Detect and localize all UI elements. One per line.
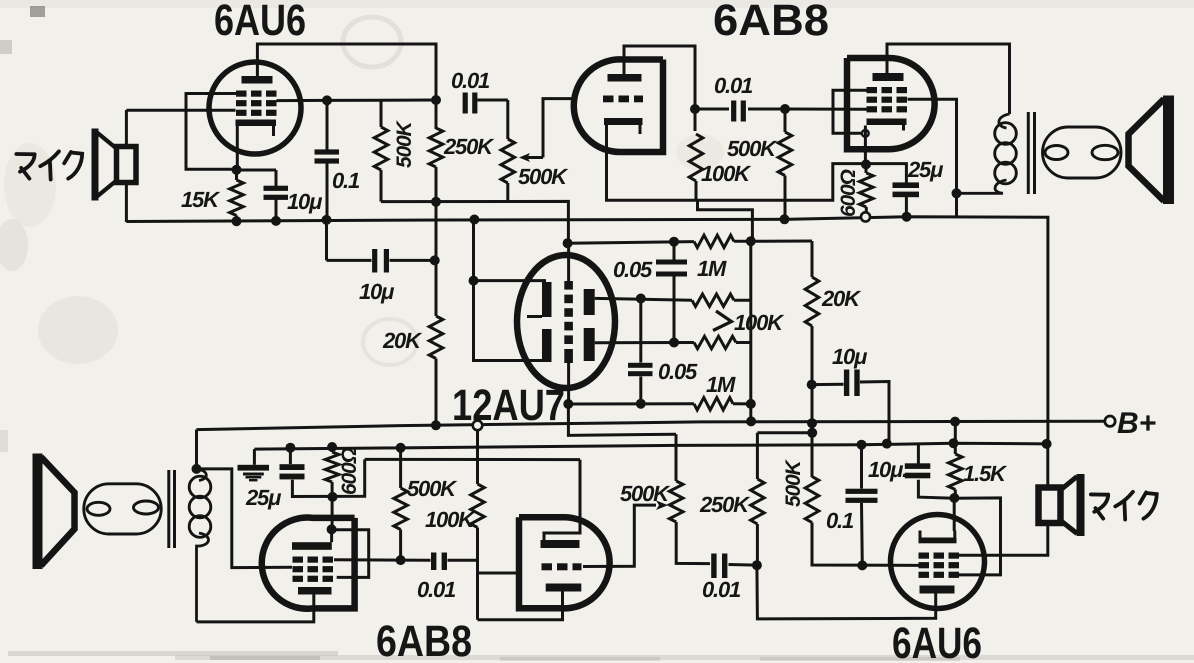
wire 436 vertical mid — [435, 202, 438, 316]
wire V1 plate to coupling node — [257, 44, 436, 129]
svg-text:500K: 500K — [407, 476, 458, 501]
tube 12AU7 V4 envelope — [517, 255, 615, 388]
node lineA x955 — [950, 417, 960, 427]
node lineA x436 — [431, 420, 441, 430]
tube 6AU6 V1 envelope — [209, 62, 301, 154]
svg-text:250K: 250K — [443, 134, 495, 159]
riser x751 — [749, 241, 752, 421]
wire row2 to riser — [734, 299, 751, 302]
resistor R10 100K-pot lower — [694, 336, 736, 348]
wire V4 left anchor — [474, 220, 547, 361]
potentiometer R4 500K (volume) — [501, 139, 515, 183]
wire row3 to riser — [736, 341, 751, 344]
resistor R6 500K — [784, 109, 787, 132]
wire mic top lead — [1046, 444, 1049, 488]
node V1 cathode junction — [232, 165, 242, 175]
capacitor C13 0.1 — [860, 445, 863, 489]
tube 6AB8 V2 triode envelope — [574, 59, 663, 152]
wire V3 plate to transformer — [887, 44, 1010, 114]
pot R4 wiper arrow — [527, 156, 543, 159]
node (435,260) — [430, 255, 440, 265]
wire V6 grid to pot wiper — [583, 505, 656, 566]
wire 100K to V6 cathode — [478, 593, 563, 620]
transformer T1 primary — [999, 114, 1010, 128]
capacitor C10 25u — [289, 448, 292, 464]
wire V7 plate line — [757, 565, 936, 619]
svg-text:0.1: 0.1 — [826, 508, 854, 533]
capacitor C7 0.05 — [673, 242, 676, 260]
capacitor C4 0.01 (coupling) — [463, 93, 468, 114]
V2 cathode line to V3 network — [607, 152, 907, 200]
tube V7 cathode — [919, 538, 957, 544]
svg-text:600Ω: 600Ω — [837, 170, 860, 217]
svg-text:20K: 20K — [382, 328, 423, 353]
svg-text:25μ: 25μ — [245, 485, 281, 510]
wire cathode to g3 — [954, 498, 1000, 575]
node grid line 0.1 — [857, 560, 867, 570]
speaker SP4 (マイク right) box — [1039, 488, 1061, 524]
wire SP1 top lead — [125, 110, 128, 148]
tube V1 plate — [242, 76, 273, 84]
crossover ring x477 — [473, 421, 483, 431]
wire wiper to V2 grid — [543, 99, 578, 158]
node riser lineA — [746, 416, 756, 426]
node lineB x812 — [807, 428, 817, 438]
node 25u/plate tap — [328, 492, 338, 502]
resistor R2 500K (plate load) — [380, 100, 383, 127]
tube V7 plate — [920, 586, 955, 594]
svg-text:15K: 15K — [181, 187, 221, 212]
pot R17 wiper arrow — [656, 500, 668, 510]
speaker SP2 horn — [1163, 96, 1174, 205]
tube V3 plate — [873, 73, 904, 81]
node riser row4 — [746, 399, 756, 409]
wire T2 to V5 grid — [197, 469, 293, 568]
tube V4 right plate lower — [584, 328, 595, 361]
capacitor C14 10u — [917, 444, 920, 464]
wire V5 row1 to node — [334, 558, 401, 561]
capacitor C9 10u — [812, 383, 844, 386]
node transformer return — [952, 188, 962, 198]
resistor R8 1M — [694, 235, 734, 247]
resistor R18 250K — [756, 433, 759, 479]
resistor R16 100K (bottom) — [476, 431, 479, 485]
capacitor C3 10u (feedback) — [325, 220, 328, 261]
pentode g3 bracket — [833, 90, 867, 133]
svg-text:0.1: 0.1 — [332, 168, 360, 193]
svg-text:20K: 20K — [821, 286, 862, 311]
node bus C1 — [271, 216, 281, 226]
wire V6 cathode lead — [561, 592, 564, 621]
capacitor C1 10u — [275, 170, 278, 186]
capacitor C8 0.05 — [639, 299, 642, 363]
node bus 12AU7-anchor — [469, 215, 479, 225]
resistor R19 500K (grid, bottom right) — [805, 477, 819, 523]
node grid2 bus (327,100) — [322, 95, 332, 105]
wire V3 cathode lead — [864, 126, 867, 166]
svg-text:10μ: 10μ — [287, 189, 322, 214]
svg-text:0.01: 0.01 — [714, 73, 753, 98]
resistor R20 1.5K — [954, 422, 957, 444]
node rail 0.1 — [857, 440, 867, 450]
node rail 1.5K — [949, 438, 959, 448]
node rail mic — [1042, 439, 1052, 449]
stub to tube wall — [479, 572, 520, 575]
node (436,202) — [431, 197, 441, 207]
speaker SP4 horn — [1077, 474, 1085, 536]
node (641,404) — [636, 399, 646, 409]
capacitor C2 0.1 — [326, 100, 329, 150]
wire cathode to C1 — [237, 169, 277, 172]
wire V4 upper-left arm — [474, 279, 547, 282]
svg-text:100K: 100K — [734, 310, 785, 335]
transformer T2 core — [167, 470, 170, 548]
tube V5 cathode — [298, 587, 332, 595]
resistor R12 20K — [811, 241, 814, 277]
lineB rail — [568, 404, 676, 435]
line y448 cathode rail — [254, 443, 1046, 449]
node coupling (436,100) — [431, 95, 441, 105]
svg-text:10μ: 10μ — [832, 344, 867, 369]
tube V6 plate — [541, 540, 580, 548]
V5 g3 bracket — [332, 530, 369, 578]
svg-text:500K: 500K — [782, 459, 805, 507]
B+ supply rail — [196, 421, 1104, 429]
wire 250K top link — [757, 431, 812, 434]
tube V4 left plate upper — [542, 282, 552, 317]
resistor R7 600ohm — [865, 164, 868, 173]
node (641,298) — [636, 294, 646, 304]
ring 600ohm bottom — [861, 212, 870, 221]
pot R9/R10 wiper arrow — [713, 311, 732, 331]
tube V6 grid dashes — [542, 563, 553, 570]
tube 6AB8 V3 pentode envelope — [847, 58, 935, 149]
bus#2 cathode-ground (y201) — [381, 201, 568, 243]
svg-text:25μ: 25μ — [907, 157, 943, 182]
node (674,242) — [669, 237, 679, 247]
tube V3 grid — [867, 87, 878, 93]
resistor R13 20K (left) — [429, 316, 443, 359]
label マイク (left) — [16, 152, 34, 156]
resistor R1 15K — [230, 180, 244, 216]
wire V4 grid top lead — [567, 243, 570, 281]
svg-text:0.05: 0.05 — [613, 257, 653, 282]
node plate-coupling (695,109) — [690, 104, 700, 114]
label マイク (right) — [1091, 493, 1108, 497]
svg-text:600Ω: 600Ω — [338, 448, 361, 495]
node 600ohm top — [861, 159, 871, 169]
tube 6AU6 V7 envelope — [891, 515, 985, 609]
wire SP1 bottom lead — [125, 180, 128, 222]
node (568,404) — [563, 399, 573, 409]
svg-text:6AB8: 6AB8 — [376, 617, 472, 663]
svg-text:500K: 500K — [620, 481, 671, 506]
wire V4 lower plate out — [595, 341, 694, 344]
svg-text:100K: 100K — [701, 161, 752, 186]
wire lineA to T2 — [195, 430, 198, 469]
wire V4 grid bottom lead — [567, 361, 570, 404]
tube V2 cathode — [604, 118, 643, 125]
svg-text:10μ.: 10μ. — [868, 457, 907, 482]
svg-text:0.05: 0.05 — [658, 359, 698, 384]
node left anchor — [469, 276, 479, 286]
svg-text:500K: 500K — [727, 136, 778, 161]
cathode feedthrough ring — [862, 130, 869, 137]
node bus C2 — [322, 215, 332, 225]
node V7 cathode junction — [949, 493, 959, 503]
wire V7 cathode stub — [953, 498, 956, 531]
tube V5 plate — [292, 542, 332, 550]
wire lineB to pot R17 — [675, 434, 678, 481]
node riser top — [746, 236, 756, 246]
node rail 500K — [396, 443, 406, 453]
wire row2 to node — [277, 99, 328, 102]
resistor R9 100K-pot upper — [692, 294, 734, 306]
tube V4 right plate upper — [584, 289, 595, 315]
transformer T2 secondary — [197, 469, 207, 481]
tube 6AB8 V6 triode envelope — [519, 517, 610, 608]
tube V1 grid — [236, 91, 247, 97]
node V5 plate — [327, 524, 337, 534]
resistor R15 500K (bottom) — [399, 448, 402, 488]
wire plate rail to V6 triode — [365, 458, 580, 461]
node V5 row1 out — [396, 555, 406, 565]
bus#3 1M rail (y241) — [567, 242, 694, 244]
svg-text:10μ: 10μ — [359, 279, 394, 304]
wire V4 upper plate out — [595, 298, 692, 300]
svg-text:B+: B+ — [1117, 407, 1156, 440]
wire node to 436 — [327, 99, 436, 102]
tube V2 plate — [608, 74, 642, 82]
tube V5 grid — [293, 557, 304, 563]
transformer T1 core — [1027, 112, 1030, 194]
capacitor C11 0.01 — [401, 559, 431, 562]
tube 6AB8 V5 pentode envelope — [262, 518, 355, 609]
node bus R6 — [780, 214, 790, 224]
tube V7 grid — [919, 553, 930, 559]
speaker SP2 voice coil — [1043, 127, 1122, 178]
node 10u tap — [807, 380, 817, 390]
svg-text:6AU6: 6AU6 — [892, 619, 982, 663]
node rail 25u — [285, 443, 295, 453]
svg-text:1M: 1M — [697, 256, 727, 281]
wire 20K to lineA — [435, 359, 438, 426]
wire V2 plate loop — [624, 46, 695, 131]
speaker SP3 voice coil — [84, 484, 161, 534]
wire V1 grid-leak loop — [186, 94, 237, 170]
node 0.01/250K junction — [752, 560, 762, 570]
tube V4 left plate lower — [542, 329, 552, 362]
node bus C6 — [902, 212, 912, 222]
terminal B+ ring — [1105, 416, 1115, 426]
svg-text:1M: 1M — [706, 372, 736, 397]
capacitor C6 25u — [893, 182, 920, 188]
svg-text:6AB8: 6AB8 — [713, 0, 829, 45]
tube V1 cathode — [236, 120, 277, 127]
capacitor C5 0.01 — [695, 108, 729, 111]
svg-text:0.01: 0.01 — [451, 68, 490, 93]
node (674,342) — [669, 338, 679, 348]
speaker SP3 horn — [33, 454, 43, 570]
node bus 15K — [232, 216, 242, 226]
resistor R3 250K — [429, 128, 443, 167]
wire mic to V1 grid — [126, 109, 235, 112]
svg-text:0.01: 0.01 — [417, 577, 456, 602]
wire V5 plate lead — [330, 529, 333, 542]
wire R5 jog to 1M bus — [698, 200, 753, 242]
resistor R5 100K — [689, 134, 703, 181]
wire V6 plate drop — [544, 460, 580, 541]
tube V2 grid dashes — [603, 96, 614, 103]
node grid-top — [563, 238, 573, 248]
node rail 600ohm — [327, 442, 337, 452]
svg-text:0.01: 0.01 — [702, 577, 741, 602]
svg-text:1.5K: 1.5K — [963, 461, 1008, 486]
node lineA x812 — [807, 418, 817, 428]
speaker SP1 (マイク left) box — [117, 147, 137, 183]
node (785,109) — [780, 104, 790, 114]
svg-text:250K: 250K — [699, 492, 751, 517]
bus#1 ground rail (y220) — [126, 217, 1048, 445]
node T2 top — [192, 464, 202, 474]
node rail C9-return — [882, 439, 892, 449]
svg-text:500K: 500K — [518, 164, 569, 189]
svg-text:6AU6: 6AU6 — [214, 0, 306, 45]
wire V7 g1 to mic — [958, 524, 1048, 556]
potentiometer R17 500K (bottom) — [669, 481, 683, 522]
tube V3 cathode — [867, 119, 907, 126]
resistor R14 600ohm (bottom) — [331, 447, 334, 452]
ground symbol — [253, 449, 256, 465]
capacitor C12 0.01 — [711, 554, 716, 579]
tube V4 grid column — [564, 281, 573, 290]
tube V6 cathode — [546, 584, 582, 592]
speaker SP1 horn — [92, 129, 99, 201]
svg-text:100K: 100K — [425, 507, 476, 532]
wire V3 screen to ground — [908, 99, 957, 217]
bus row4 (y404) — [568, 402, 694, 405]
svg-text:500K: 500K — [393, 120, 416, 168]
wire coupling to pentode grid — [785, 108, 867, 111]
wire T2 return to cathode — [197, 594, 314, 622]
resistor R11 1M — [694, 398, 733, 410]
